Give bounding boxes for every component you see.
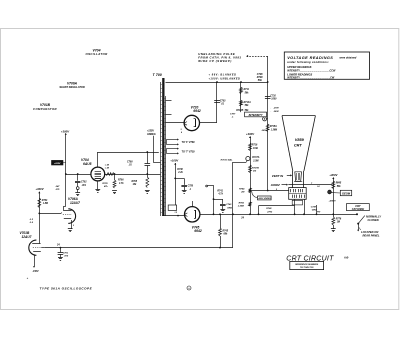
svg-text:OSCILLATOR: OSCILLATOR <box>85 52 108 56</box>
svg-text:4.7k: 4.7k <box>118 182 124 185</box>
svg-text:134k: 134k <box>253 147 259 150</box>
svg-text:.01: .01 <box>129 165 133 167</box>
svg-text:← -1830: ← -1830 <box>270 111 279 113</box>
svg-text:+225V: +225V <box>54 163 61 165</box>
svg-text:47k: 47k <box>103 185 108 188</box>
svg-text:REFERENCE NUMBERS: REFERENCE NUMBERS <box>295 264 319 266</box>
svg-text:+225V UNREG: +225V UNREG <box>258 198 271 200</box>
svg-text:700 THRU 799: 700 THRU 799 <box>300 267 314 269</box>
svg-text:1.36M: 1.36M <box>238 205 244 207</box>
svg-text:-1850V: -1850V <box>329 201 337 203</box>
svg-text:4: 4 <box>180 131 183 134</box>
svg-text:1000: 1000 <box>271 99 277 101</box>
svg-text:56k: 56k <box>245 92 250 94</box>
svg-text:R742: R742 <box>266 207 272 210</box>
svg-text:R712B: R712B <box>236 110 243 112</box>
svg-text:R708: R708 <box>132 181 138 183</box>
svg-text:.1: .1 <box>189 189 192 191</box>
svg-text:R730: R730 <box>177 169 183 171</box>
svg-text:-1.6: -1.6 <box>29 222 34 224</box>
svg-text:R716: R716 <box>252 145 258 147</box>
svg-text:INTENSITY: INTENSITY <box>249 113 263 117</box>
svg-text:14: 14 <box>317 185 320 188</box>
svg-text:C741: C741 <box>226 203 232 206</box>
svg-text:2: 2 <box>60 212 63 214</box>
svg-text:HORIZ: HORIZ <box>271 183 280 187</box>
svg-text:+300V: +300V <box>61 129 70 133</box>
svg-text:R704: R704 <box>42 199 48 202</box>
svg-text:R745: R745 <box>223 229 229 232</box>
svg-text:= 48: = 48 <box>105 163 110 166</box>
svg-text:+: + <box>27 276 29 280</box>
svg-text:C708: C708 <box>127 161 133 163</box>
svg-text:+100V: +100V <box>170 158 178 162</box>
svg-text:10k: 10k <box>133 184 138 186</box>
svg-text:3: 3 <box>180 129 182 131</box>
svg-text:.01: .01 <box>221 104 225 106</box>
svg-text:+ 86V: BLANKED: + 86V: BLANKED <box>209 74 237 77</box>
svg-text:R712A: R712A <box>244 102 251 104</box>
svg-text:R711: R711 <box>244 89 250 91</box>
svg-text:1M: 1M <box>253 170 256 172</box>
svg-text:.001: .001 <box>82 185 87 187</box>
svg-text:-147: -147 <box>55 185 60 188</box>
svg-text:2M: 2M <box>240 192 244 194</box>
svg-text:GEOM: GEOM <box>342 192 351 196</box>
svg-text:CRT: CRT <box>294 143 303 148</box>
svg-text:24: 24 <box>240 217 244 220</box>
svg-text:1.8M: 1.8M <box>43 203 48 205</box>
svg-text:12AU7: 12AU7 <box>70 201 80 205</box>
svg-text:VERT IN: VERT IN <box>272 174 284 178</box>
svg-text:INTENSITY.....................: INTENSITY...............................… <box>287 77 335 80</box>
svg-text:270k: 270k <box>266 211 273 213</box>
svg-text:56k: 56k <box>245 105 250 107</box>
svg-text:TO 'T' V730: TO 'T' V730 <box>182 151 196 154</box>
svg-text:REAR PANEL: REAR PANEL <box>363 233 380 237</box>
svg-text:GRD: GRD <box>227 207 232 209</box>
svg-text:A·B·: A·B· <box>343 257 349 260</box>
svg-text:R717B: R717B <box>252 167 259 169</box>
svg-text:under following conditions:: under following conditions: <box>287 60 329 64</box>
svg-text:1 5: 1 5 <box>175 212 178 214</box>
svg-text:R706: R706 <box>118 180 124 182</box>
svg-text:+300V: +300V <box>35 187 44 191</box>
svg-text:WIRE CP (SWEEP): WIRE CP (SWEEP) <box>198 59 232 63</box>
svg-text:← -1700: ← -1700 <box>270 108 279 110</box>
svg-text:VOLTAGE READINGS: VOLTAGE READINGS <box>287 56 333 60</box>
svg-text:= 49: = 49 <box>105 166 110 169</box>
svg-text:C750: C750 <box>188 186 194 188</box>
svg-text:C703: C703 <box>220 101 226 103</box>
svg-text:UNREG: UNREG <box>147 133 156 136</box>
svg-text:4.7k: 4.7k <box>217 193 223 196</box>
svg-text:C701: C701 <box>63 252 69 254</box>
svg-text:T 700: T 700 <box>153 73 162 77</box>
svg-text:C707: C707 <box>230 114 236 116</box>
svg-text:C702: C702 <box>81 182 87 184</box>
svg-text:R715A: R715A <box>270 126 277 128</box>
svg-text:+300V: +300V <box>329 173 338 177</box>
svg-text:6642: 6642 <box>194 229 202 233</box>
svg-text:R705: R705 <box>102 183 108 185</box>
svg-text:R845: R845 <box>336 182 342 185</box>
svg-text:-150V: -150V <box>32 270 39 273</box>
svg-text:2.2k: 2.2k <box>177 172 183 174</box>
svg-text:56k: 56k <box>258 79 263 82</box>
svg-text:.005: .005 <box>64 255 69 257</box>
svg-text:INT DC BAL: INT DC BAL <box>221 160 234 162</box>
svg-text:C747: C747 <box>311 206 317 209</box>
svg-text:CLOSED: CLOSED <box>368 218 379 222</box>
svg-text:were obtained: were obtained <box>340 57 357 60</box>
svg-text:UPPER READINGS: UPPER READINGS <box>287 65 311 69</box>
svg-text:1.36M: 1.36M <box>271 129 277 131</box>
svg-text:+300V: +300V <box>246 132 255 136</box>
svg-text:12AU7: 12AU7 <box>22 235 32 239</box>
svg-text:.1: .1 <box>232 117 235 119</box>
svg-text:2.5M: 2.5M <box>252 160 258 162</box>
svg-text:-1850: -1850 <box>261 130 267 132</box>
svg-text:R776: R776 <box>336 218 342 220</box>
svg-text:CATHODE: CATHODE <box>352 207 365 211</box>
svg-text:R717A: R717A <box>252 157 259 159</box>
svg-text:C710: C710 <box>270 95 276 97</box>
svg-text:PIV: PIV <box>317 212 321 214</box>
svg-text:56k: 56k <box>245 110 250 112</box>
svg-text:3: 3 <box>73 225 75 227</box>
svg-text:24: 24 <box>56 244 60 247</box>
svg-text:INTENSITY.....................: INTENSITY...............................… <box>287 69 336 72</box>
svg-text:V706A: V706A <box>67 81 78 85</box>
svg-text:1M: 1M <box>337 222 340 224</box>
svg-text:+100V: UNBLANKED: +100V: UNBLANKED <box>209 77 241 80</box>
svg-text:SHUNT REGULATOR: SHUNT REGULATOR <box>59 85 85 89</box>
svg-text:R764: R764 <box>239 188 245 191</box>
svg-text:R741: R741 <box>217 189 223 192</box>
svg-text:56k: 56k <box>337 186 342 188</box>
svg-text:TO 'F' V760: TO 'F' V760 <box>182 141 196 144</box>
svg-text:R766: R766 <box>239 202 245 204</box>
svg-text:6AU5: 6AU5 <box>83 162 92 166</box>
svg-text:TYPE 561A OSCILLOSCOPE: TYPE 561A OSCILLOSCOPE <box>40 286 93 290</box>
svg-text:68k: 68k <box>224 234 229 236</box>
svg-text:-1.5: -1.5 <box>29 219 34 221</box>
svg-text:COMPARATOR: COMPARATOR <box>33 107 57 111</box>
svg-text:6642: 6642 <box>193 109 201 113</box>
svg-text:-175: -175 <box>55 189 60 191</box>
svg-text:V859: V859 <box>295 137 305 142</box>
